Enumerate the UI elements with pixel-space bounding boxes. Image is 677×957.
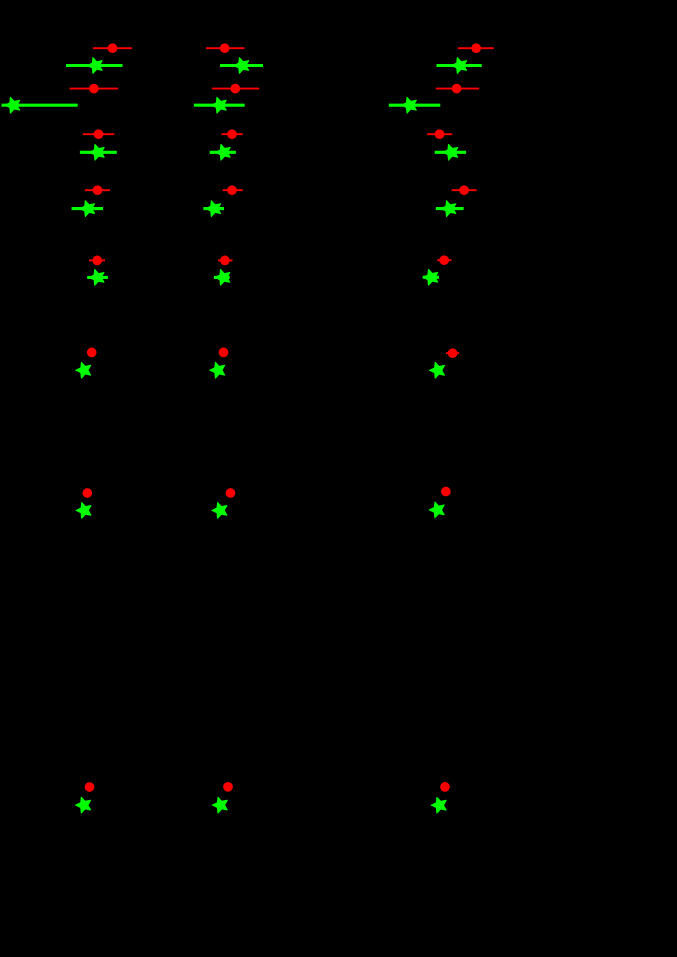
red circle marker row5 panelA (89, 256, 105, 266)
green star marker row7 panelB (212, 503, 227, 519)
red circle marker row2 panelB (212, 84, 259, 94)
red circle marker row7 panelA (82, 488, 92, 498)
green star marker row3 panelA (80, 144, 117, 160)
green star marker row5 panelC (423, 269, 439, 285)
red circle marker row2 panelC (436, 84, 479, 94)
red circle marker row3 panelB (222, 129, 243, 139)
green star marker row2 panelA (2, 97, 78, 113)
green star marker row1 panelA (66, 58, 123, 74)
green star marker row4 panelB (203, 201, 224, 217)
green star marker row7 panelA (76, 503, 91, 519)
red circle marker row7 panelC (441, 487, 451, 497)
red circle marker row4 panelC (452, 185, 477, 195)
red circle marker row3 panelA (83, 129, 114, 139)
green star marker row2 panelC (389, 97, 441, 113)
red circle marker row5 panelC (437, 255, 451, 265)
red circle marker row1 panelA (93, 43, 132, 53)
green star marker row6 panelB (210, 362, 225, 378)
green star marker row1 panelB (220, 58, 263, 74)
green star marker row3 panelB (210, 144, 236, 160)
green star marker row5 panelA (87, 270, 108, 286)
green star marker row7 panelC (429, 502, 444, 518)
red circle marker row5 panelB (218, 256, 233, 266)
green star marker row6 panelA (76, 362, 91, 378)
green star marker row3 panelC (435, 144, 466, 160)
green star marker row8 panelC (431, 797, 446, 813)
green star marker row4 panelC (436, 201, 464, 217)
red circle marker row6 panelA (87, 348, 97, 358)
green star marker row2 panelB (194, 97, 245, 113)
green star marker row8 panelA (76, 797, 91, 813)
red circle marker row1 panelC (458, 43, 494, 53)
red circle marker row4 panelA (85, 185, 110, 195)
red circle marker row6 panelB (219, 348, 229, 358)
green star marker row6 panelC (430, 362, 445, 378)
red circle marker row2 panelA (70, 84, 119, 94)
red circle marker row7 panelB (226, 488, 236, 498)
red circle marker row6 panelC (446, 348, 459, 358)
green star marker row4 panelA (72, 201, 103, 217)
green star marker row8 panelB (212, 797, 227, 813)
red circle marker row8 panelB (223, 782, 233, 792)
red circle marker row1 panelB (206, 43, 245, 53)
red circle marker row8 panelA (85, 782, 95, 792)
red circle marker row8 panelC (440, 782, 450, 792)
red circle marker row4 panelB (223, 185, 243, 195)
red circle marker row3 panelC (427, 129, 452, 139)
green star marker row1 panelC (437, 58, 482, 74)
green star marker row5 panelB (214, 270, 230, 286)
